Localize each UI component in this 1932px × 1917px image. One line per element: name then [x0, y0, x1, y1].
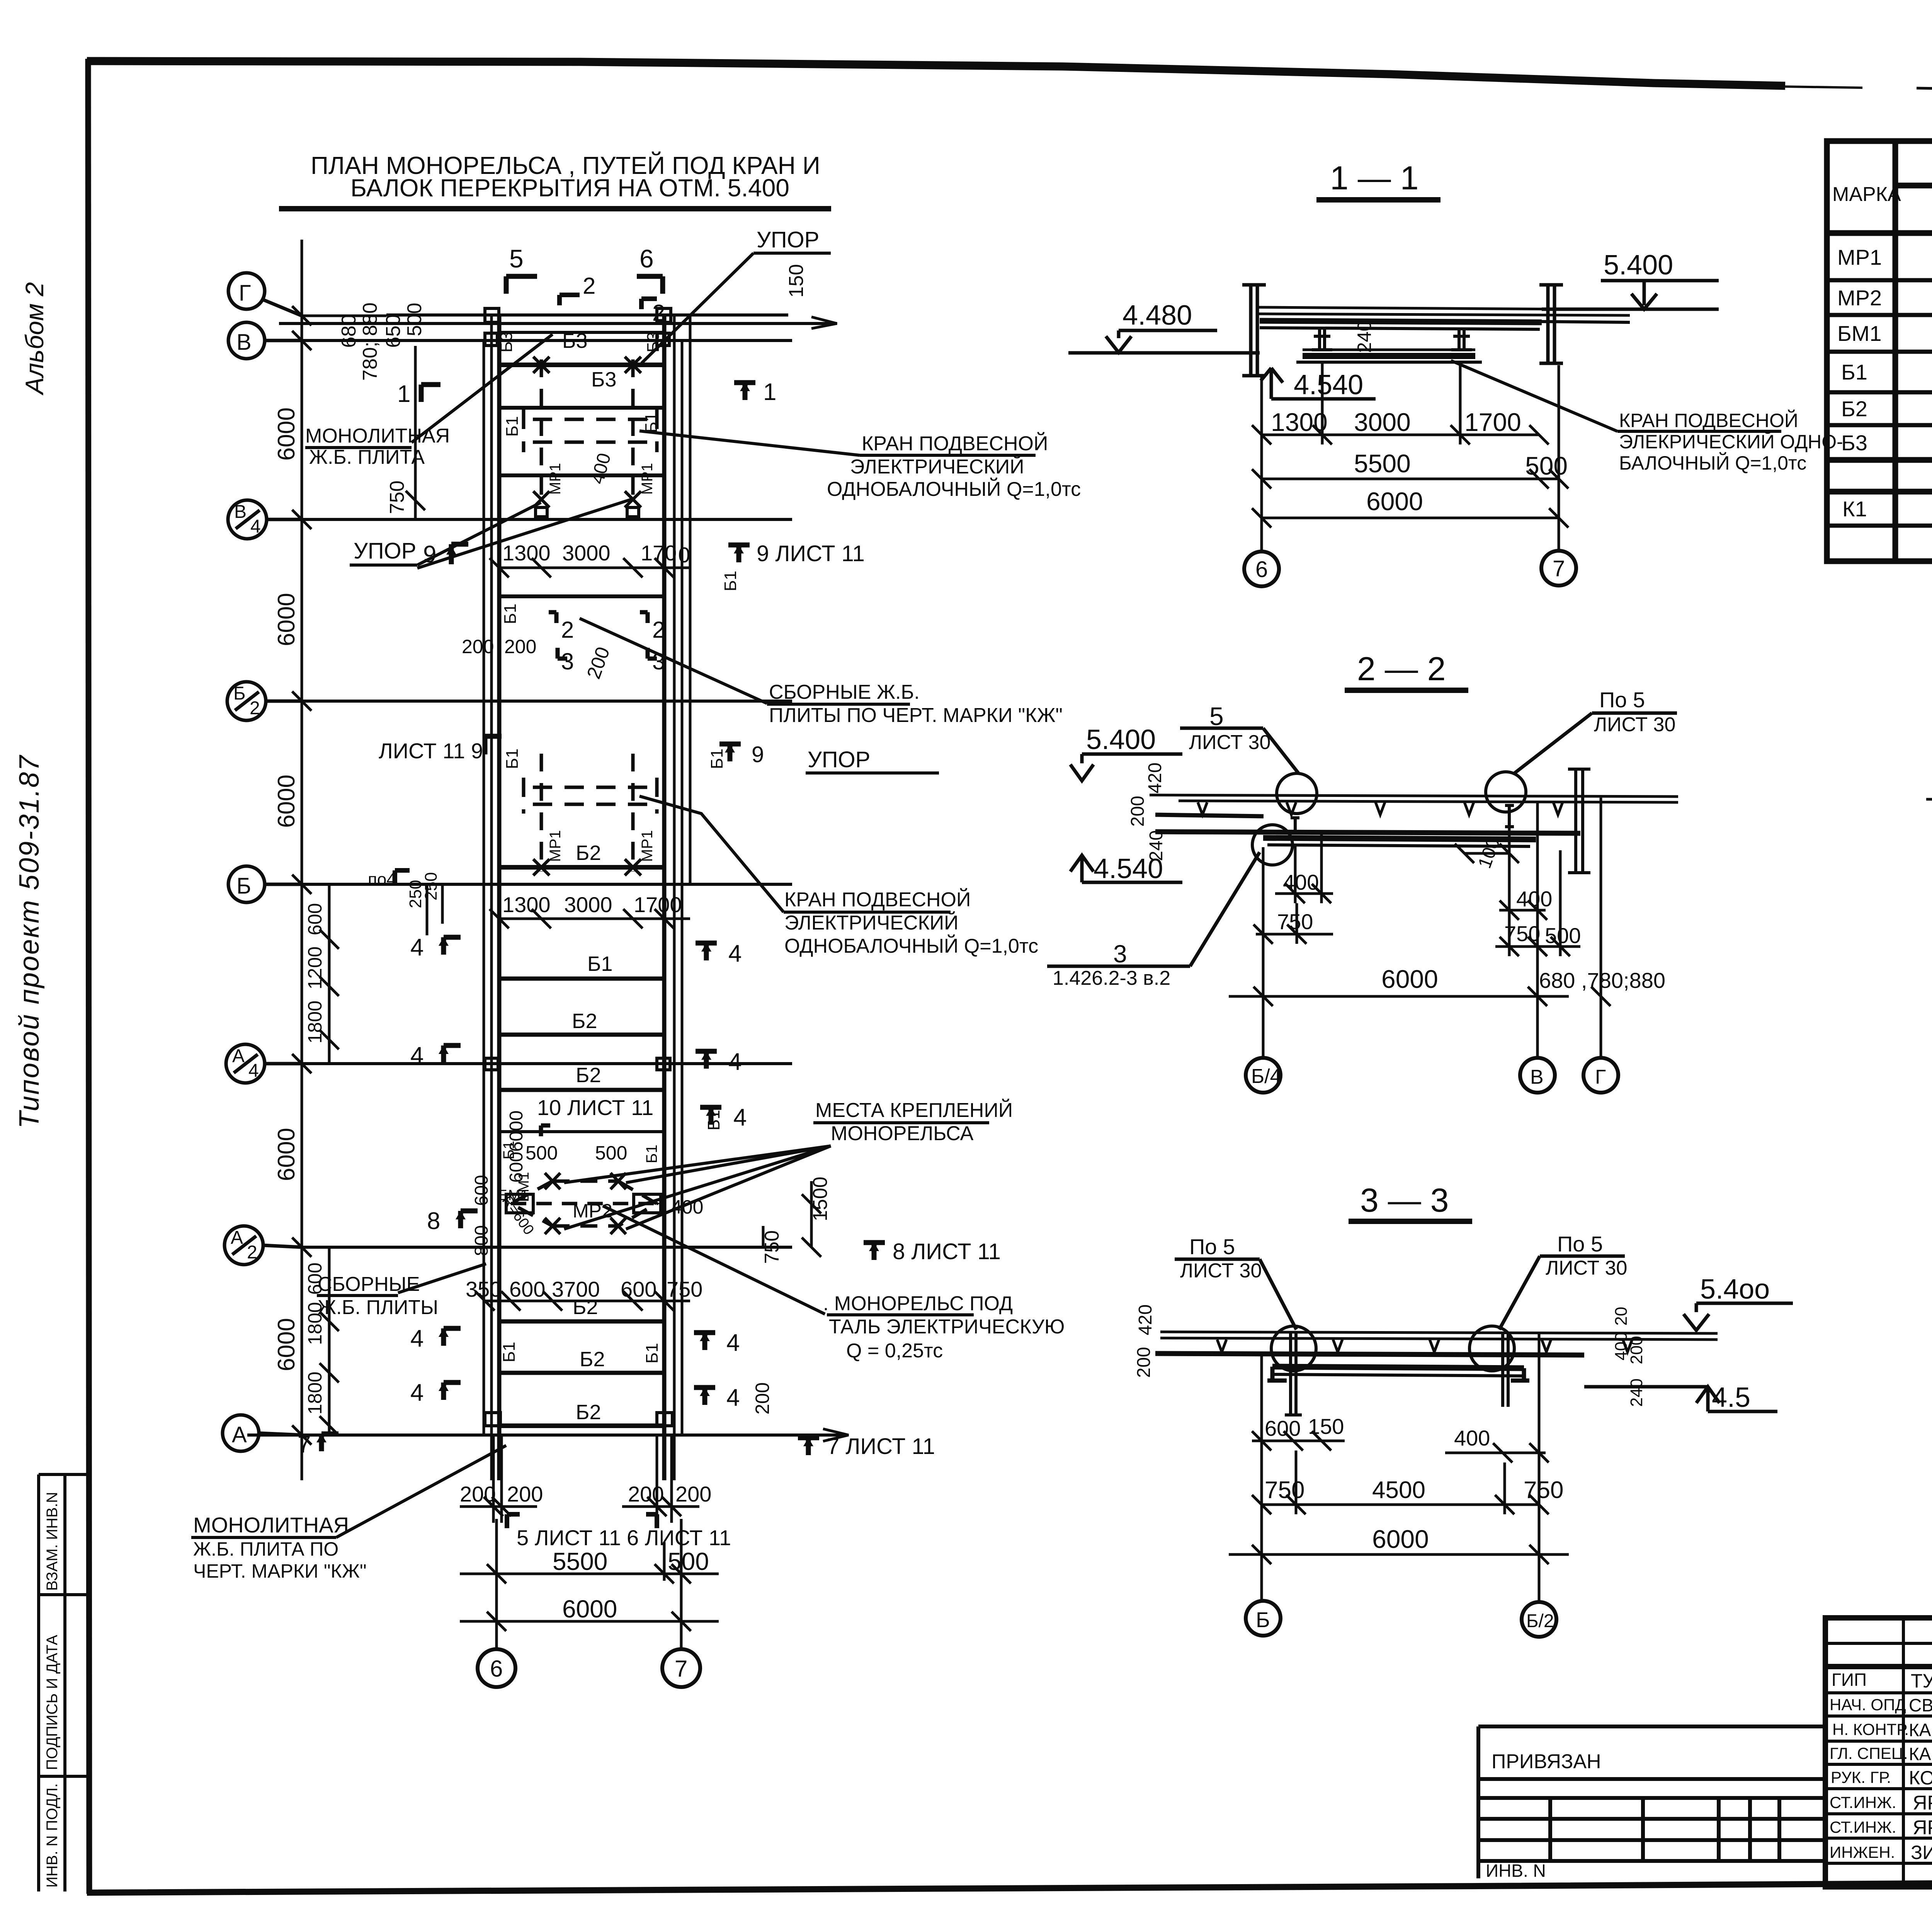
svg-text:БМ1: БМ1: [1837, 321, 1882, 346]
dim 400 right: [1454, 1426, 1490, 1450]
beam Б2 with upor X at Б: [499, 865, 664, 870]
Кран подвесной (upper) label: [827, 432, 1081, 501]
svg-text:150: 150: [785, 264, 808, 298]
svg-text:Q = 0,25тс: Q = 0,25тс: [846, 1340, 943, 1362]
svg-text:Н. КОНТР.: Н. КОНТР.: [1832, 1720, 1909, 1738]
svg-text:ЯРЦЕВА: ЯРЦЕВА: [1913, 1817, 1932, 1839]
svg-text:4.480: 4.480: [1122, 300, 1192, 331]
svg-text:6: 6: [639, 244, 654, 273]
Т9 лист 11 right: [728, 545, 750, 562]
svg-text:2: 2: [561, 617, 574, 643]
axis А/2 long line: [302, 1246, 792, 1249]
svg-text:4: 4: [410, 1042, 423, 1069]
svg-text:Б2: Б2: [576, 841, 601, 865]
svg-text:МР1: МР1: [639, 463, 656, 495]
svg-text:750: 750: [1265, 1477, 1304, 1503]
rotated dims right 3-3: [1612, 1307, 1646, 1407]
svg-text:СВЕТЛИЧНЫЙ: СВЕТЛИЧНЫЙ: [1909, 1695, 1932, 1715]
svg-text:5.400: 5.400: [1086, 724, 1156, 755]
svg-text:800: 800: [471, 1225, 492, 1256]
svg-text:1800: 1800: [304, 1001, 326, 1044]
svg-text:240: 240: [1627, 1379, 1646, 1407]
svg-text:7: 7: [298, 1431, 311, 1458]
1 Г mark left: [421, 385, 440, 402]
9 Г mark left: [446, 544, 468, 564]
svg-text:200: 200: [1627, 1336, 1646, 1364]
rotated dims left 3-3: [1134, 1304, 1156, 1378]
T 1 mark right: [734, 383, 755, 400]
beam Б2 below А/4: [499, 1088, 664, 1092]
4Г marks left column: [444, 937, 461, 1400]
svg-text:6: 6: [490, 1656, 503, 1682]
svg-text:5500: 5500: [553, 1548, 607, 1575]
svg-text:Альбом 2: Альбом 2: [20, 282, 49, 396]
vertical dimension chain line at x=781: [292, 240, 311, 1480]
Монолитная ж.б. плита по черт. марки КЖ (bottom): [193, 1513, 367, 1582]
svg-text:750: 750: [1524, 1477, 1563, 1503]
svg-text:Б3: Б3: [562, 329, 587, 352]
svg-text:420: 420: [1135, 1304, 1156, 1335]
sheet frame left: [88, 59, 89, 1894]
svg-text:А: А: [231, 1227, 243, 1248]
svg-text:5.4оо: 5.4оо: [1700, 1274, 1770, 1305]
10 лист 11 label: [537, 1095, 653, 1120]
svg-text:420: 420: [1145, 763, 1165, 793]
Места креплений монорельса: [815, 1099, 1013, 1145]
svg-text:ЛИСТ 30: ЛИСТ 30: [1180, 1260, 1262, 1282]
svg-text:6: 6: [1255, 557, 1268, 582]
grid circle А/4: [226, 1044, 302, 1083]
svg-text:ЭЛЕКТРИЧЕСКИЙ: ЭЛЕКТРИЧЕСКИЙ: [784, 911, 959, 934]
svg-text:КАПИТУЛЬСКИЙ: КАПИТУЛЬСКИЙ: [1909, 1744, 1932, 1764]
plan walls: right wall lines: [662, 315, 667, 1480]
X upor marks at B/4 level: [533, 491, 641, 517]
svg-text:6000: 6000: [1372, 1525, 1429, 1553]
title block (stamp): [1825, 1618, 1932, 1887]
по4 mark and 250 dims at Б: [304, 870, 440, 1044]
svg-text:1300: 1300: [502, 892, 551, 917]
svg-text:4: 4: [728, 1049, 742, 1075]
svg-text:4: 4: [410, 1379, 423, 1406]
svg-text:Б3: Б3: [1841, 431, 1867, 455]
svg-text:МР1: МР1: [547, 830, 564, 862]
svg-text:20: 20: [1612, 1307, 1631, 1326]
100 dim right: [1475, 835, 1504, 871]
svg-text:4: 4: [410, 1325, 423, 1352]
svg-text:3000: 3000: [1354, 408, 1411, 436]
4.540 left: [1094, 853, 1163, 884]
svg-text:0: 0: [678, 543, 690, 567]
750 dim left: [1277, 909, 1313, 934]
beams Б1 Б2 Б2 between Б and А/4: [499, 977, 664, 981]
8 Г mark left: [456, 1211, 478, 1228]
svg-text:ЭЛЕКТРИЧЕСКИЙ: ЭЛЕКТРИЧЕСКИЙ: [850, 455, 1024, 478]
Монолитная ж.б. плита label: [305, 425, 450, 468]
axis В/4 long line: [302, 518, 792, 521]
svg-text:1200: 1200: [304, 947, 326, 989]
svg-text:6000: 6000: [562, 1595, 617, 1623]
svg-text:КАПИТУЛЬСКИЙ: КАПИТУЛЬСКИЙ: [1909, 1720, 1932, 1740]
svg-text:А: А: [232, 1422, 247, 1447]
svg-text:ЛИСТ 30: ЛИСТ 30: [1546, 1257, 1627, 1279]
svg-text:5500: 5500: [1354, 449, 1411, 478]
svg-text:600: 600: [1265, 1416, 1301, 1440]
svg-text:8: 8: [427, 1208, 440, 1234]
svg-text:1800: 1800: [304, 1372, 326, 1415]
svg-text:750: 750: [1277, 909, 1313, 934]
axis В long line: [302, 339, 792, 342]
svg-text:8 ЛИСТ 11: 8 ЛИСТ 11: [893, 1239, 1001, 1264]
axis Б/2 long line: [302, 700, 792, 703]
Т7 лист 11 right: [798, 1438, 819, 1455]
elevation 4.480 left: [1122, 300, 1192, 331]
svg-text:МР1: МР1: [1837, 245, 1882, 269]
svg-text:200: 200: [752, 1382, 773, 1415]
svg-text:4: 4: [726, 1384, 740, 1411]
svg-text:КРАН ПОДВЕСНОЙ: КРАН ПОДВЕСНОЙ: [1619, 409, 1798, 431]
svg-text:ЗИНЧЕНКО: ЗИНЧЕНКО: [1911, 1842, 1932, 1863]
monorail diamond center beam: [511, 1202, 656, 1205]
grid circle Б: [228, 866, 302, 902]
svg-text:Б1: Б1: [707, 749, 726, 769]
svg-text:200: 200: [675, 1482, 711, 1506]
left margin rotated text: Альбом 2: [14, 282, 49, 1129]
svg-text:9: 9: [752, 742, 764, 767]
svg-text:ВЗАМ. ИНВ.N: ВЗАМ. ИНВ.N: [44, 1492, 61, 1591]
svg-text:1: 1: [763, 379, 776, 405]
svg-text:ЭЛЕКРИЧЕСКИЙ ОДНО-: ЭЛЕКРИЧЕСКИЙ ОДНО-: [1619, 431, 1843, 453]
svg-text:МР1: МР1: [547, 463, 564, 495]
axis А/4 long line: [302, 1062, 792, 1065]
Кран подвесной label right of 1-1: [1619, 409, 1843, 474]
thin beam lines upper zone: [499, 408, 664, 475]
svg-text:БАЛОЧНЫЙ Q=1,0тс: БАЛОЧНЫЙ Q=1,0тс: [1619, 452, 1806, 474]
svg-text:Б2: Б2: [573, 1296, 598, 1319]
svg-text:Б: Б: [233, 683, 246, 704]
svg-text:По 5: По 5: [1189, 1234, 1235, 1259]
vertical dim 1500/750 right of diamond: [763, 1181, 821, 1257]
svg-text:5: 5: [1209, 702, 1224, 730]
svg-text:4: 4: [726, 1330, 740, 1356]
svg-text:Б/2: Б/2: [1526, 1611, 1554, 1631]
hangers 3-3: [1285, 1333, 1508, 1415]
axis А long line: [247, 1433, 846, 1437]
dim 1300 3000 1700 at В/4: [502, 541, 690, 567]
grid circle Б/2: [227, 682, 302, 720]
Сборные ж.б. плиты по черт. марки КЖ: [769, 681, 1063, 727]
5.400 left: [1086, 724, 1156, 755]
svg-text:ТУРИНСКИЙ: ТУРИНСКИЙ: [1911, 1670, 1932, 1692]
grid circle Г: [228, 273, 302, 316]
svg-text:КОРСУНСКИЙ: КОРСУНСКИЙ: [1909, 1767, 1932, 1789]
crane beam band: [1263, 838, 1536, 839]
bottom-left rotated margin table: [39, 1474, 88, 1891]
svg-text:СБОРНЫЕ Ж.Б.: СБОРНЫЕ Ж.Б.: [769, 681, 920, 703]
svg-text:4: 4: [248, 1061, 259, 1081]
svg-text:200: 200: [507, 1482, 543, 1506]
svg-text:6000: 6000: [1381, 965, 1438, 993]
table data: [1837, 238, 1932, 531]
svg-text:Ж.Б. ПЛИТА: Ж.Б. ПЛИТА: [309, 446, 425, 468]
circles 2-2: [1246, 1058, 1618, 1093]
svg-text:3: 3: [561, 649, 574, 674]
dims 350 600 3700 600 750: [466, 1277, 702, 1301]
лист 11 9 Г left: [379, 739, 483, 763]
svg-text:ГЛ. СПЕЦ.: ГЛ. СПЕЦ.: [1830, 1744, 1908, 1762]
svg-text:ПОДПИСЬ И ДАТА: ПОДПИСЬ И ДАТА: [44, 1635, 61, 1770]
svg-text:4500: 4500: [1372, 1477, 1425, 1503]
svg-text:По 5: По 5: [1557, 1232, 1603, 1256]
svg-text:500: 500: [1545, 923, 1581, 948]
5 / лист 30 label: [1189, 702, 1270, 754]
dashed crane rectangle upper: [524, 410, 657, 452]
svg-text:МЕСТА КРЕПЛЕНИЙ: МЕСТА КРЕПЛЕНИЙ: [815, 1099, 1013, 1122]
slab 2-2: [1150, 795, 1678, 802]
svg-text:ИНЖЕН.: ИНЖЕН.: [1830, 1843, 1895, 1861]
svg-text:6000: 6000: [273, 775, 300, 828]
svg-text:500: 500: [668, 1548, 709, 1575]
svg-text:200: 200: [1128, 796, 1148, 827]
circles 3-3: [1246, 1601, 1556, 1637]
svg-text:10 ЛИСТ 11: 10 ЛИСТ 11: [537, 1095, 653, 1120]
svg-text:4: 4: [410, 934, 423, 961]
svg-text:В: В: [1530, 1066, 1544, 1088]
svg-text:ИНВ. N ПОДЛ.: ИНВ. N ПОДЛ.: [44, 1783, 61, 1888]
beams below В/4: [499, 594, 664, 598]
svg-text:ЛИСТ 30: ЛИСТ 30: [1594, 713, 1675, 736]
svg-text:ОДНОБАЛОЧНЫЙ Q=1,0тс: ОДНОБАЛОЧНЫЙ Q=1,0тс: [784, 935, 1038, 957]
dims 750 4500 750: [1265, 1477, 1563, 1503]
400 dim left: [1283, 870, 1319, 894]
svg-text:6000: 6000: [273, 593, 300, 646]
grid circle А/2: [224, 1226, 302, 1265]
sheet frame top band: [87, 61, 1785, 86]
1800 1800 dims left: [304, 1263, 326, 1415]
svg-text:Б2: Б2: [580, 1348, 605, 1371]
svg-text:600: 600: [509, 1277, 545, 1301]
svg-text:2 — 2: 2 — 2: [1357, 650, 1446, 688]
svg-text:ЧЕРТ. МАРКИ "КЖ": ЧЕРТ. МАРКИ "КЖ": [193, 1560, 367, 1582]
bottom grid circles 6 and 7: [478, 1649, 700, 1687]
plan: 2 marks top: [560, 295, 657, 309]
svg-text:А: А: [232, 1046, 245, 1066]
200 200 dims above Б/2: [462, 636, 614, 682]
svg-text:ЛИСТ 11 9: ЛИСТ 11 9: [379, 739, 483, 763]
svg-text:5: 5: [509, 244, 524, 273]
svg-text:1 — 1: 1 — 1: [1330, 160, 1418, 197]
6000 dim 2-2: [1381, 965, 1438, 993]
По 5 лист 30 left: [1180, 1234, 1262, 1282]
rotated dims left: [1128, 763, 1167, 861]
axis Г long line: [302, 315, 386, 317]
grid circle А: [223, 1415, 302, 1451]
750 vertical dim left of strip: [406, 346, 425, 519]
axis Б long line: [302, 883, 792, 886]
svg-text:Б2: Б2: [576, 1401, 601, 1424]
svg-text:200: 200: [504, 636, 536, 657]
column squares at А/4: [485, 1058, 670, 1070]
svg-text:МР1: МР1: [639, 830, 656, 862]
right column I-beam: [1539, 285, 1563, 363]
svg-text:7 ЛИСТ 11: 7 ЛИСТ 11: [827, 1434, 935, 1459]
svg-text:600: 600: [471, 1175, 492, 1206]
150 label top right: [785, 264, 808, 298]
svg-text:6 ЛИСТ 11: 6 ЛИСТ 11: [627, 1525, 731, 1550]
svg-text:400: 400: [1454, 1426, 1490, 1450]
Upor label top: [757, 227, 819, 252]
svg-text:Г: Г: [1595, 1066, 1606, 1088]
svg-text:Б2: Б2: [572, 1010, 597, 1033]
svg-text:750: 750: [386, 480, 408, 514]
plan top band (monolithic slab edge): [279, 315, 837, 332]
plan walls: left wall double lines: [484, 315, 492, 1480]
svg-text:1.426.2-3 в.2: 1.426.2-3 в.2: [1053, 967, 1170, 989]
svg-text:4: 4: [728, 940, 742, 967]
По 5 лист 30 right: [1546, 1232, 1627, 1279]
detail bulge circles 3-3: [1271, 1326, 1514, 1371]
svg-text:Б3: Б3: [497, 332, 516, 352]
crane rail hangers: [1312, 329, 1472, 350]
4.540 right: [1712, 1382, 1750, 1413]
top corner column squares: [485, 308, 671, 346]
grid circle В: [228, 322, 302, 359]
section marks 2 and 3 inside strip: [549, 612, 657, 659]
svg-text:Б1: Б1: [1841, 360, 1867, 384]
500 500 dims: [500, 1141, 660, 1164]
svg-text:МОНОЛИТНАЯ: МОНОЛИТНАЯ: [193, 1513, 349, 1537]
svg-text:В: В: [236, 330, 252, 355]
svg-text:6000: 6000: [273, 407, 300, 461]
svg-text:Б1: Б1: [503, 749, 522, 769]
dim 6000 3-3: [1372, 1525, 1429, 1553]
240 rotated dim: [1354, 321, 1375, 353]
grid circle В/4: [228, 500, 302, 539]
svg-text:7: 7: [1553, 556, 1565, 581]
7 Г mark left of А: [316, 1434, 338, 1451]
svg-text:Б1: Б1: [587, 952, 612, 976]
slab lines section 1-1: [1257, 307, 1630, 315]
5 лист 11 / 6 лист 11 marks: [507, 1514, 657, 1528]
svg-text:ОДНОБАЛОЧНЫЙ Q=1,0тс: ОДНОБАЛОЧНЫЙ Q=1,0тс: [827, 478, 1081, 501]
svg-text:Б1: Б1: [500, 1342, 519, 1362]
svg-text:УПОР: УПОР: [808, 747, 870, 772]
elevation 5.400 right: [1604, 250, 1673, 281]
3 / 1.426.2-3 в.2 label: [1053, 940, 1170, 989]
svg-text:2: 2: [652, 300, 665, 326]
svg-text:УПОР: УПОР: [354, 538, 416, 564]
svg-text:240: 240: [1354, 321, 1375, 353]
svg-text:6000: 6000: [1366, 487, 1423, 516]
svg-text:5 ЛИСТ 11: 5 ЛИСТ 11: [517, 1525, 621, 1550]
svg-text:350: 350: [466, 1277, 502, 1301]
svg-text:РУК. ГР.: РУК. ГР.: [1831, 1768, 1891, 1786]
svg-text:Ж.Б. ПЛИТА ПО: Ж.Б. ПЛИТА ПО: [193, 1538, 338, 1560]
svg-text:МОНОРЕЛЬСА: МОНОРЕЛЬСА: [831, 1122, 974, 1145]
svg-text:200: 200: [1134, 1347, 1154, 1378]
svg-text:6000: 6000: [273, 1318, 300, 1371]
200 200 dims below А: [460, 1482, 711, 1506]
privyazan sub-table left of stamp: [1478, 1726, 1825, 1878]
svg-text:Б2: Б2: [1841, 397, 1867, 421]
svg-text:Б1: Б1: [643, 1145, 660, 1164]
svg-text:9: 9: [423, 541, 436, 568]
svg-text:МАРКА: МАРКА: [1832, 183, 1901, 206]
rail I-beams: [1291, 805, 1514, 833]
Монорельс под таль электрическую: [823, 1292, 1065, 1362]
svg-text:. МОНОРЕЛЬС ПОД: . МОНОРЕЛЬС ПОД: [823, 1292, 1013, 1315]
svg-text:СТ.ИНЖ.: СТ.ИНЖ.: [1830, 1818, 1896, 1836]
crane bridge beam: [1303, 353, 1475, 359]
svg-text:МР2: МР2: [1837, 286, 1882, 310]
svg-text:1700: 1700: [1464, 408, 1521, 436]
svg-text:200: 200: [628, 1482, 664, 1506]
svg-text:3: 3: [1113, 940, 1127, 968]
svg-text:4: 4: [250, 516, 261, 537]
svg-text:Г: Г: [239, 281, 251, 306]
svg-text:К1: К1: [1842, 497, 1867, 521]
detail bulges: [1252, 772, 1526, 865]
walls below А: [493, 1435, 672, 1523]
circles 6 7 section 1-1: [1244, 551, 1576, 586]
plan title: [311, 151, 820, 202]
svg-text:650: 650: [382, 314, 405, 348]
rotated dim 6000 labels: [273, 303, 381, 1371]
400 dim right: [1516, 887, 1552, 911]
thin line: [499, 1130, 664, 1133]
svg-text:6000: 6000: [506, 1110, 527, 1152]
svg-text:600: 600: [506, 1152, 527, 1183]
svg-text:Б1: Б1: [503, 416, 522, 437]
dim 1300 3000 1700 at Б: [502, 892, 682, 917]
svg-text:Типовой проект 509-31.87: Типовой проект 509-31.87: [14, 754, 45, 1129]
svg-text:БАЛОК ПЕРЕКРЫТИЯ НА ОТМ. 5.400: БАЛОК ПЕРЕКРЫТИЯ НА ОТМ. 5.400: [350, 174, 789, 202]
svg-text:Ж.Б. ПЛИТЫ: Ж.Б. ПЛИТЫ: [318, 1296, 438, 1319]
dashed monorail MP1 verticals (upper): [541, 359, 633, 502]
svg-text:200: 200: [462, 636, 494, 657]
svg-text:ЛИСТ 30: ЛИСТ 30: [1189, 731, 1270, 754]
svg-text:ТАЛЬ ЭЛЕКТРИЧЕСКУЮ: ТАЛЬ ЭЛЕКТРИЧЕСКУЮ: [829, 1316, 1065, 1338]
svg-text:ПРИВЯЗАН: ПРИВЯЗАН: [1492, 1750, 1601, 1773]
svg-text:5.400: 5.400: [1604, 250, 1673, 281]
По 5 / лист 30 top right: [1594, 688, 1675, 736]
svg-text:Б1: Б1: [643, 1343, 662, 1364]
svg-text:500: 500: [595, 1142, 627, 1164]
monorail diamond (MP2 loop): [511, 1181, 656, 1226]
svg-text:600: 600: [304, 903, 326, 935]
svg-text:4.540: 4.540: [1294, 369, 1363, 400]
svg-text:3000: 3000: [564, 892, 612, 917]
svg-text:Б1: Б1: [501, 604, 520, 624]
svg-text:ГИП: ГИП: [1832, 1670, 1867, 1690]
ribbed panel ribs: [1198, 802, 1563, 815]
svg-text:150: 150: [1308, 1414, 1344, 1439]
svg-text:2: 2: [250, 698, 260, 718]
crane beam band 3-3: [1272, 1367, 1524, 1368]
svg-text:4.540: 4.540: [1094, 853, 1163, 884]
svg-text:Б2: Б2: [576, 1064, 601, 1087]
svg-text:500: 500: [1525, 451, 1568, 480]
svg-text:Б: Б: [236, 873, 251, 899]
svg-text:500: 500: [403, 303, 426, 336]
column squares at А: [485, 1413, 672, 1426]
svg-text:680: 680: [338, 314, 360, 348]
svg-text:ПЛИТЫ ПО ЧЕРТ. МАРКИ "КЖ": ПЛИТЫ ПО ЧЕРТ. МАРКИ "КЖ": [769, 704, 1063, 727]
svg-text:КРАН ПОДВЕСНОЙ: КРАН ПОДВЕСНОЙ: [862, 432, 1048, 455]
dashed monorail MP1 verticals (mid): [541, 754, 633, 872]
dims 600 150: [1265, 1414, 1344, 1440]
svg-text:Б3: Б3: [644, 332, 663, 352]
svg-text:750: 750: [667, 1277, 702, 1301]
